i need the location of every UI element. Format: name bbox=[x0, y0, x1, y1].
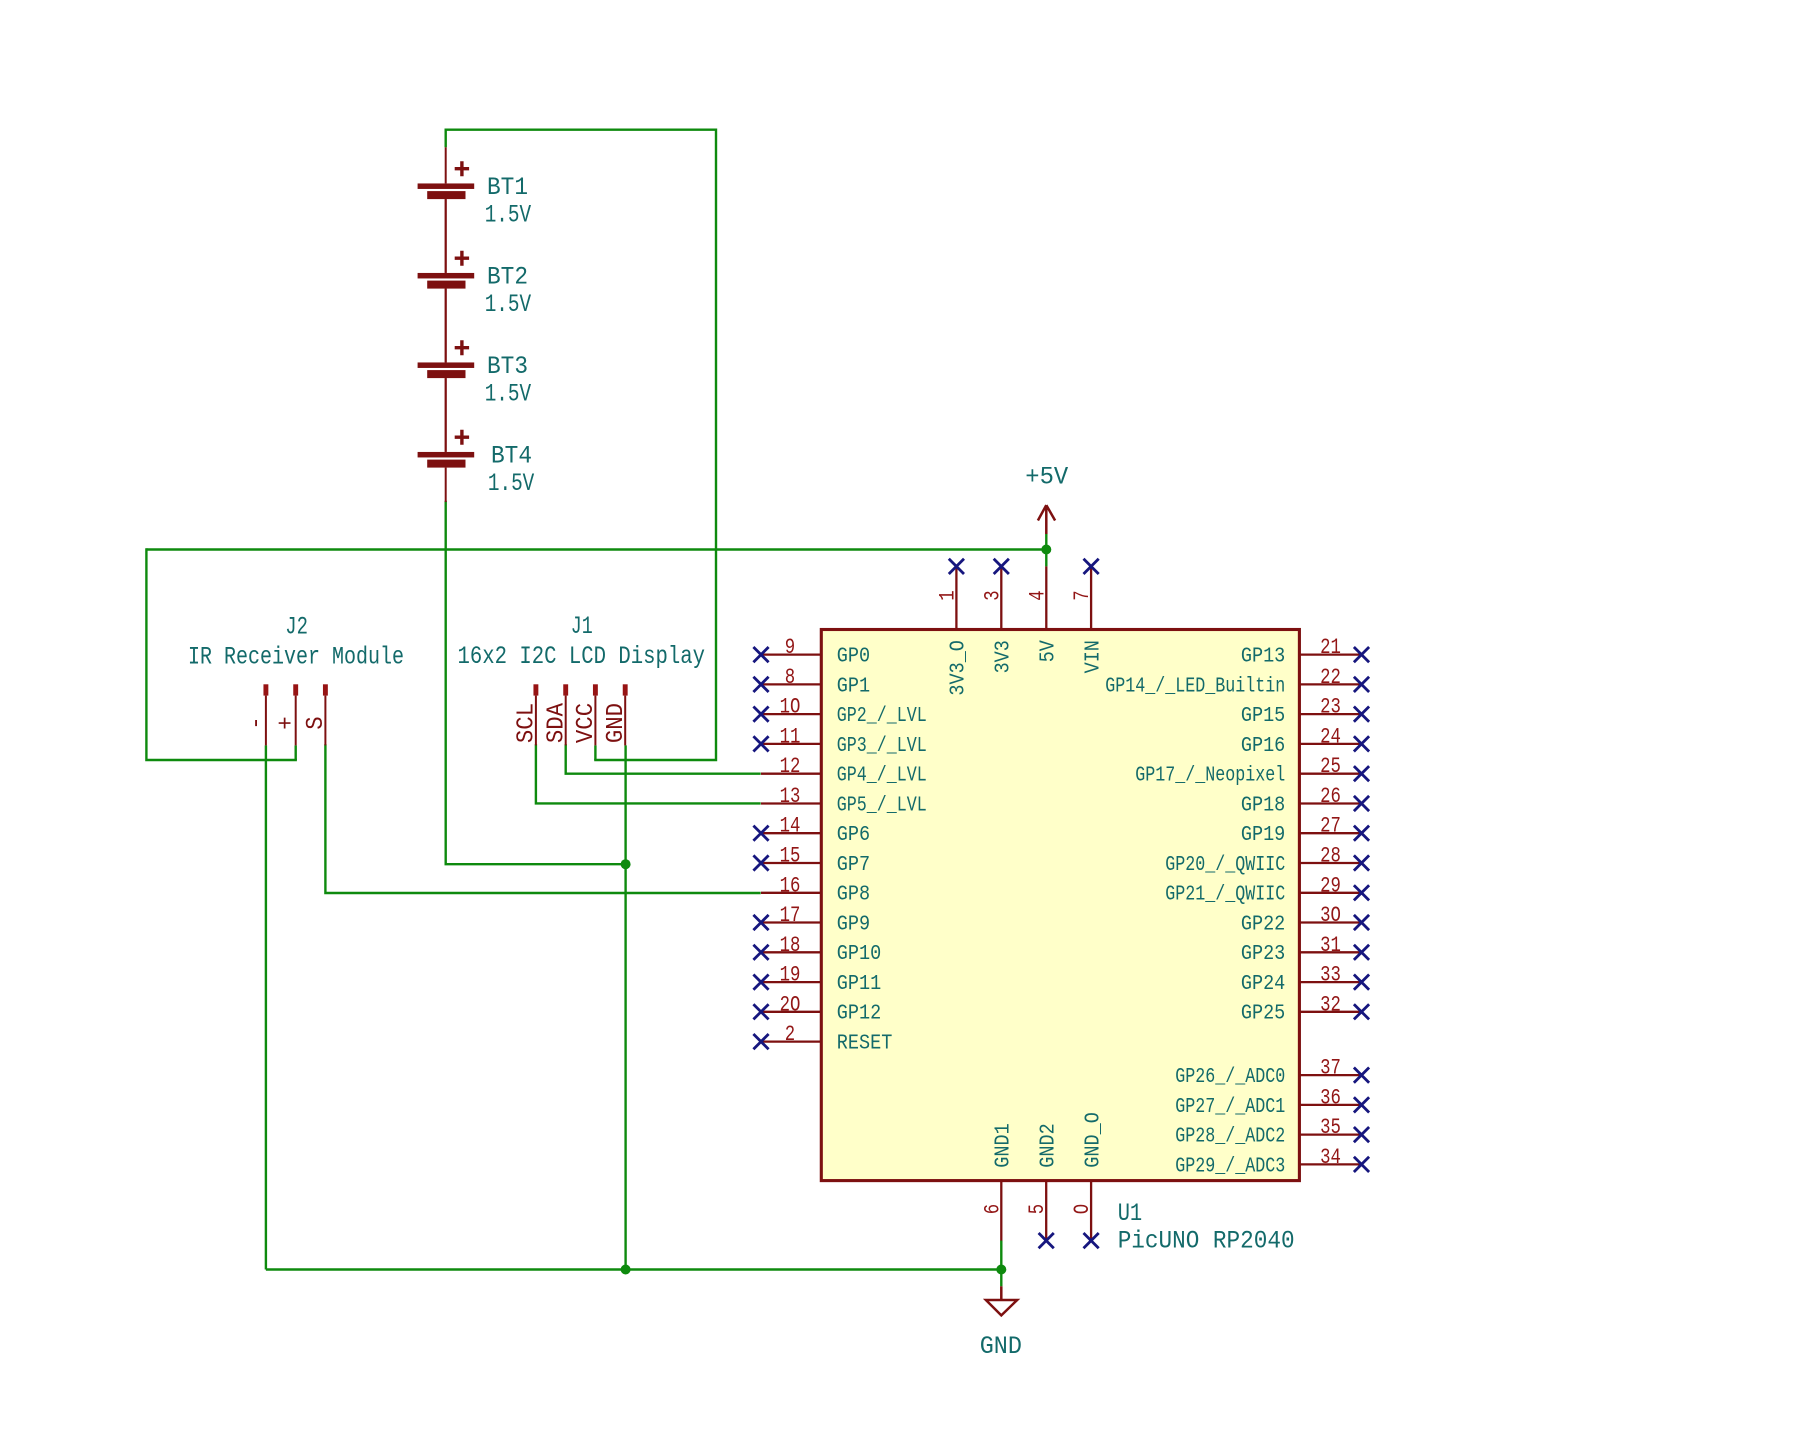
svg-text:3V3_O: 3V3_O bbox=[947, 640, 971, 696]
svg-text:GP4_/_LVL: GP4_/_LVL bbox=[837, 764, 927, 788]
junction ground rail at J1 GND drop bbox=[621, 1265, 631, 1275]
wire left drop from +5V rail to J2 + pin bbox=[146, 550, 295, 761]
svg-text:BT4: BT4 bbox=[491, 442, 532, 471]
wire +5V rail horizontal bbox=[146, 548, 1046, 550]
J2 pin - bbox=[263, 684, 268, 745]
svg-text:GP6: GP6 bbox=[837, 823, 870, 847]
U1 pin 13 GP5_/_LVL bbox=[761, 802, 821, 804]
U1 pin 27 GP19 bbox=[1299, 826, 1369, 841]
svg-text:1O: 1O bbox=[780, 694, 801, 720]
U1 pin 12 GP4_/_LVL bbox=[761, 773, 821, 775]
J2 pin S bbox=[323, 684, 328, 745]
svg-text:GP16: GP16 bbox=[1241, 734, 1285, 758]
wire J2 pin - down to ground rail bbox=[265, 745, 267, 1269]
svg-text:PicUNO RP2040: PicUNO RP2040 bbox=[1118, 1227, 1295, 1256]
svg-text:GP7: GP7 bbox=[837, 853, 870, 877]
svg-text:GP24: GP24 bbox=[1241, 972, 1285, 996]
U1 pin 31 GP23 bbox=[1299, 945, 1369, 960]
U1 pin 25 GP17_/_Neopixel bbox=[1299, 766, 1369, 781]
svg-text:GP1: GP1 bbox=[837, 674, 870, 698]
junction battery negative to J1 GND net bbox=[621, 859, 631, 869]
U1 pin 24 GP16 bbox=[1299, 736, 1369, 751]
J1 pin SDA bbox=[563, 684, 568, 745]
battery BT4 1.5V bbox=[418, 378, 475, 502]
svg-text:7: 7 bbox=[1069, 590, 1095, 600]
svg-text:36: 36 bbox=[1320, 1084, 1341, 1110]
svg-text:GND: GND bbox=[980, 1332, 1022, 1361]
J1 pin GND bbox=[623, 684, 628, 745]
battery BT1 1.5V bbox=[418, 147, 475, 273]
svg-text:GP28_/_ADC2: GP28_/_ADC2 bbox=[1175, 1124, 1285, 1148]
svg-text:VCC: VCC bbox=[573, 703, 600, 743]
U1 pin 21 GP13 bbox=[1299, 647, 1369, 662]
U1 pin 20 GP12 bbox=[753, 1004, 821, 1019]
svg-text:22: 22 bbox=[1320, 664, 1341, 690]
U1 pin 9 GP0 bbox=[753, 647, 821, 662]
svg-text:24: 24 bbox=[1320, 723, 1341, 749]
svg-text:GP20_/_QWIIC: GP20_/_QWIIC bbox=[1165, 853, 1285, 877]
U1 pin 2 RESET bbox=[753, 1034, 821, 1049]
svg-text:11: 11 bbox=[780, 723, 801, 749]
svg-text:33: 33 bbox=[1320, 962, 1341, 988]
svg-text:37: 37 bbox=[1320, 1055, 1341, 1081]
svg-text:+: + bbox=[274, 716, 301, 729]
wire J1 VCC stub bbox=[594, 745, 596, 760]
wire J1 SCL to U1 GP5 bbox=[536, 745, 760, 803]
svg-text:8: 8 bbox=[785, 664, 795, 690]
svg-text:29: 29 bbox=[1320, 872, 1341, 898]
wire +5V symbol stem bbox=[1045, 534, 1047, 566]
svg-text:GP14_/_LED_Builtin: GP14_/_LED_Builtin bbox=[1105, 674, 1285, 698]
svg-text:3O: 3O bbox=[1320, 902, 1341, 928]
svg-text:17: 17 bbox=[780, 902, 801, 928]
U1 pin 0 GND_O bbox=[1084, 1181, 1099, 1249]
svg-text:VIN: VIN bbox=[1081, 640, 1105, 673]
svg-text:RESET: RESET bbox=[837, 1031, 893, 1055]
wire J1 GND down to ground rail bbox=[624, 745, 626, 1269]
U1 pin 33 GP24 bbox=[1299, 975, 1369, 990]
svg-text:GP26_/_ADC0: GP26_/_ADC0 bbox=[1175, 1065, 1285, 1089]
svg-text:GP9: GP9 bbox=[837, 912, 870, 936]
svg-text:J2: J2 bbox=[285, 613, 308, 642]
svg-text:BT1: BT1 bbox=[487, 173, 528, 202]
svg-text:GP13: GP13 bbox=[1241, 644, 1285, 668]
power symbol GND bbox=[986, 1286, 1017, 1315]
svg-text:J1: J1 bbox=[571, 612, 593, 641]
IC U1 PicUNO RP2040 body bbox=[821, 630, 1299, 1181]
svg-text:GND_O: GND_O bbox=[1081, 1112, 1105, 1168]
U1 pin 16 GP8 bbox=[761, 892, 821, 894]
svg-text:U1: U1 bbox=[1118, 1199, 1143, 1228]
U1 pin 7 VIN bbox=[1084, 559, 1099, 630]
svg-text:GP19: GP19 bbox=[1241, 823, 1285, 847]
svg-text:BT2: BT2 bbox=[487, 263, 528, 292]
U1 pin 36 GP27_/_ADC1 bbox=[1299, 1097, 1369, 1112]
svg-text:19: 19 bbox=[780, 962, 801, 988]
svg-text:GND1: GND1 bbox=[992, 1123, 1016, 1167]
wire ground rail horizontal bbox=[266, 1268, 1001, 1270]
U1 pin 22 GP14_/_LED_Builtin bbox=[1299, 677, 1369, 692]
svg-text:1.5V: 1.5V bbox=[488, 469, 535, 498]
svg-text:5: 5 bbox=[1024, 1204, 1050, 1214]
svg-text:23: 23 bbox=[1320, 694, 1341, 720]
svg-text:21: 21 bbox=[1320, 634, 1341, 660]
wire J2 pin + stub bbox=[295, 745, 297, 760]
svg-text:-: - bbox=[244, 716, 271, 729]
svg-text:GP22: GP22 bbox=[1241, 912, 1285, 936]
svg-text:O: O bbox=[1069, 1204, 1095, 1214]
U1 pin 23 GP15 bbox=[1299, 707, 1369, 722]
svg-text:GP10: GP10 bbox=[837, 942, 881, 966]
svg-text:25: 25 bbox=[1320, 753, 1341, 779]
svg-text:GP12: GP12 bbox=[837, 1002, 881, 1026]
svg-text:GP25: GP25 bbox=[1241, 1002, 1285, 1026]
svg-text:GP21_/_QWIIC: GP21_/_QWIIC bbox=[1165, 883, 1285, 907]
svg-text:3: 3 bbox=[979, 590, 1005, 600]
U1 pin 34 GP29_/_ADC3 bbox=[1299, 1157, 1369, 1172]
U1 pin 3 3V3 bbox=[994, 559, 1009, 630]
svg-text:GP0: GP0 bbox=[837, 644, 870, 668]
svg-text:S: S bbox=[303, 716, 330, 729]
svg-text:1.5V: 1.5V bbox=[485, 380, 532, 409]
U1 pin 14 GP6 bbox=[753, 826, 821, 841]
svg-text:31: 31 bbox=[1320, 932, 1341, 958]
U1 pin 19 GP11 bbox=[753, 975, 821, 990]
svg-text:+5V: +5V bbox=[1025, 463, 1069, 492]
svg-text:27: 27 bbox=[1320, 813, 1341, 839]
svg-text:GP15: GP15 bbox=[1241, 704, 1285, 728]
battery BT3 1.5V bbox=[418, 289, 475, 452]
svg-text:28: 28 bbox=[1320, 843, 1341, 869]
battery BT2 1.5V bbox=[418, 199, 475, 362]
J1 pin VCC bbox=[593, 684, 598, 745]
svg-text:GP8: GP8 bbox=[837, 883, 870, 907]
svg-text:IR Receiver Module: IR Receiver Module bbox=[188, 643, 404, 672]
svg-text:1.5V: 1.5V bbox=[485, 201, 532, 230]
svg-text:18: 18 bbox=[780, 932, 801, 958]
svg-text:SDA: SDA bbox=[544, 703, 571, 744]
U1 pin 15 GP7 bbox=[753, 855, 821, 870]
U1 pin 35 GP28_/_ADC2 bbox=[1299, 1127, 1369, 1142]
svg-text:GP3_/_LVL: GP3_/_LVL bbox=[837, 734, 927, 758]
wire battery negative down and right to GND net bbox=[446, 502, 626, 864]
junction +5V rail at 5V pin bbox=[1041, 545, 1051, 555]
svg-text:GP18: GP18 bbox=[1241, 793, 1285, 817]
U1 pin 10 GP2_/_LVL bbox=[753, 707, 821, 722]
power symbol +5V bbox=[1038, 505, 1055, 534]
U1 pin 5 GND2 bbox=[1039, 1181, 1054, 1249]
U1 pin 8 GP1 bbox=[753, 677, 821, 692]
U1 pin 1 3V3_O bbox=[949, 559, 964, 630]
wire J1 SDA to U1 GP4 bbox=[566, 745, 760, 773]
svg-text:2: 2 bbox=[785, 1021, 795, 1047]
wire battery top stub bbox=[445, 130, 447, 148]
U1 pin 28 GP20_/_QWIIC bbox=[1299, 855, 1369, 870]
U1 pin 29 GP21_/_QWIIC bbox=[1299, 885, 1369, 900]
svg-text:GP29_/_ADC3: GP29_/_ADC3 bbox=[1175, 1154, 1285, 1178]
svg-text:15: 15 bbox=[780, 843, 801, 869]
svg-text:GP23: GP23 bbox=[1241, 942, 1285, 966]
svg-text:14: 14 bbox=[780, 813, 801, 839]
U1 pin 4 5V bbox=[1045, 566, 1047, 629]
svg-text:12: 12 bbox=[780, 753, 801, 779]
U1 pin 18 GP10 bbox=[753, 945, 821, 960]
svg-text:3V3: 3V3 bbox=[992, 640, 1016, 673]
svg-text:6: 6 bbox=[979, 1204, 1005, 1214]
svg-text:GP17_/_Neopixel: GP17_/_Neopixel bbox=[1135, 764, 1285, 788]
svg-text:16: 16 bbox=[780, 872, 801, 898]
svg-text:GP27_/_ADC1: GP27_/_ADC1 bbox=[1175, 1095, 1285, 1119]
U1 pin 6 GND1 bbox=[1000, 1181, 1002, 1241]
wire J2 pin S to U1 GP8 bbox=[325, 745, 759, 893]
junction ground rail at U1 GND1 bbox=[996, 1265, 1006, 1275]
svg-text:35: 35 bbox=[1320, 1114, 1341, 1140]
svg-text:9: 9 bbox=[785, 634, 795, 660]
wire U1 GND1 to ground rail bbox=[1000, 1241, 1002, 1287]
U1 pin 30 GP22 bbox=[1299, 915, 1369, 930]
U1 pin 11 GP3_/_LVL bbox=[753, 736, 821, 751]
J2 pin + bbox=[293, 684, 298, 745]
svg-text:13: 13 bbox=[780, 783, 801, 809]
svg-text:26: 26 bbox=[1320, 783, 1341, 809]
U1 pin 17 GP9 bbox=[753, 915, 821, 930]
svg-text:GND2: GND2 bbox=[1036, 1123, 1060, 1167]
svg-text:GP5_/_LVL: GP5_/_LVL bbox=[837, 793, 927, 817]
svg-text:SCL: SCL bbox=[514, 703, 541, 743]
svg-text:5V: 5V bbox=[1037, 640, 1061, 662]
wire battery positive loop to J1 VCC bbox=[446, 130, 716, 760]
svg-text:BT3: BT3 bbox=[487, 352, 528, 381]
svg-text:34: 34 bbox=[1320, 1144, 1341, 1170]
U1 pin 26 GP18 bbox=[1299, 796, 1369, 811]
svg-text:1: 1 bbox=[934, 590, 960, 600]
U1 pin 32 GP25 bbox=[1299, 1004, 1369, 1019]
svg-text:GND: GND bbox=[603, 703, 630, 743]
svg-text:1.5V: 1.5V bbox=[485, 290, 532, 319]
svg-text:GP11: GP11 bbox=[837, 972, 881, 996]
svg-text:16x2 I2C LCD Display: 16x2 I2C LCD Display bbox=[458, 642, 706, 671]
J1 pin SCL bbox=[533, 684, 538, 745]
svg-text:4: 4 bbox=[1024, 590, 1050, 600]
svg-text:GP2_/_LVL: GP2_/_LVL bbox=[837, 704, 927, 728]
svg-text:32: 32 bbox=[1320, 991, 1341, 1017]
U1 pin 37 GP26_/_ADC0 bbox=[1299, 1068, 1369, 1083]
svg-text:2O: 2O bbox=[780, 991, 801, 1017]
